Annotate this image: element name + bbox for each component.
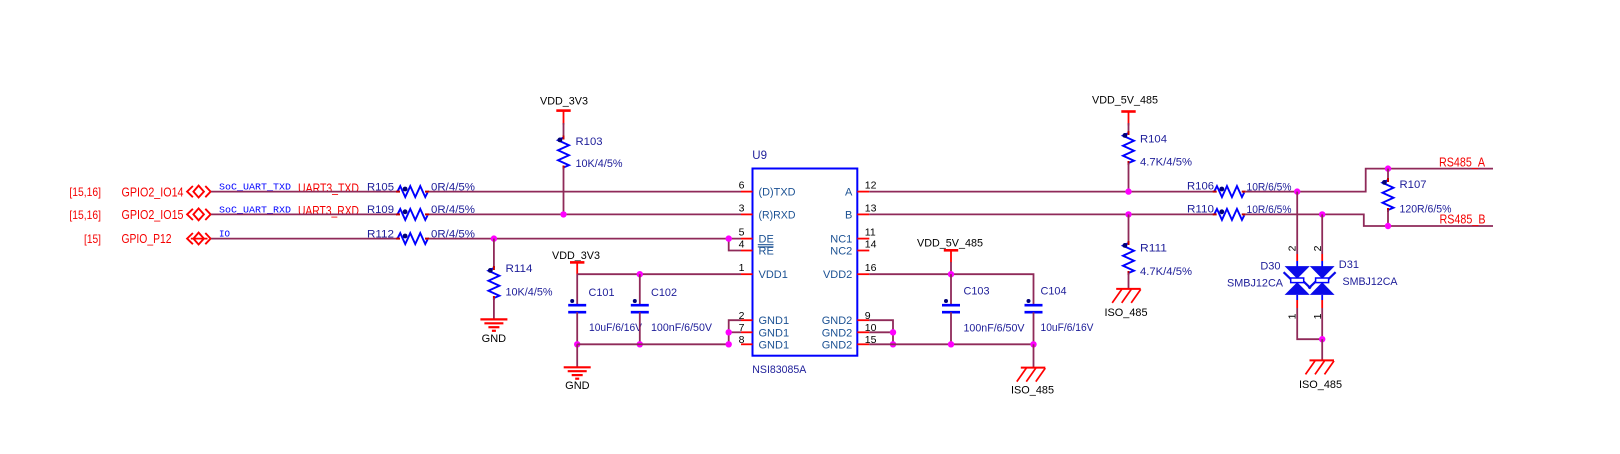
junction C104 bottom / ISO drop (1030, 341, 1036, 347)
wire D31 bottom to ISO_485 (1321, 295, 1323, 300)
wire B line to R111 (1128, 214, 1130, 243)
U9 pin 16 VDD2 (857, 273, 869, 275)
svg-text:R105: R105 (367, 181, 394, 193)
wire ISO_485 ground rail (869, 343, 1033, 345)
svg-text:R112: R112 (367, 228, 394, 240)
wire R104 to A line (1128, 163, 1130, 192)
svg-text:RS485_A: RS485_A (1439, 155, 1486, 169)
svg-text:R111: R111 (1140, 243, 1167, 255)
svg-text:10uF/6/16V: 10uF/6/16V (589, 322, 643, 334)
wire C104 bottom to ISO_485 ground (1033, 312, 1035, 344)
wire A line (U9 pin 12 to R106) (869, 191, 1214, 193)
svg-text:ISO_485: ISO_485 (1299, 379, 1342, 391)
svg-text:[15,16]: [15,16] (69, 208, 101, 222)
svg-text:A: A (845, 187, 853, 199)
svg-text:VDD1: VDD1 (759, 269, 788, 281)
wire R114 to IO row (493, 239, 495, 268)
svg-text:GND2: GND2 (822, 339, 853, 351)
ground ISO_485 (below C104) (1021, 367, 1046, 369)
wire IO row (port to R112) (211, 238, 397, 240)
svg-text:6: 6 (739, 180, 745, 192)
svg-text:12: 12 (865, 180, 877, 192)
svg-text:10uF/6/16V: 10uF/6/16V (1041, 322, 1095, 334)
svg-text:120R/6/5%: 120R/6/5% (1400, 204, 1452, 216)
svg-text:DE: DE (759, 234, 774, 246)
junction GND2 pin10 tee (890, 329, 896, 335)
wire RS485_A to R107 (1387, 169, 1389, 180)
svg-text:GPIO2_IO14: GPIO2_IO14 (122, 185, 184, 199)
svg-text:GND2: GND2 (822, 327, 853, 339)
svg-text:VDD_5V_485: VDD_5V_485 (1092, 94, 1158, 106)
wire R111 to ISO_485 ground (1128, 273, 1130, 289)
svg-text:GPIO_P12: GPIO_P12 (122, 232, 172, 246)
svg-text:B: B (845, 209, 852, 221)
svg-text:ISO_485: ISO_485 (1105, 307, 1148, 319)
svg-text:C103: C103 (964, 286, 990, 298)
svg-text:GND: GND (565, 380, 590, 392)
junction R104 on A line (1125, 188, 1131, 194)
svg-text:R114: R114 (506, 263, 533, 275)
U9 pin 15 GND2 (857, 343, 869, 345)
svg-text:C104: C104 (1041, 286, 1067, 298)
svg-text:R106: R106 (1187, 181, 1214, 193)
junction D31 tap on B line (1319, 211, 1325, 217)
svg-text:7: 7 (739, 322, 745, 334)
svg-text:NC1: NC1 (830, 234, 852, 246)
U9 pin 8 GND1 (741, 343, 753, 345)
U9 pin 10 GND2 (857, 331, 869, 333)
wire R107 to RS485_B (1387, 210, 1389, 226)
svg-text:GND1: GND1 (759, 327, 790, 339)
svg-text:8: 8 (739, 334, 745, 346)
wire IO row (R112 to DE/RE node) (428, 238, 741, 240)
wire UART3_TXD row (port to R105) (211, 191, 397, 193)
wire VDD_3V3 to R103 (563, 123, 565, 138)
U9 pin 13 B (857, 213, 869, 215)
wire C102 top drop (639, 274, 641, 305)
svg-text:VDD2: VDD2 (823, 269, 852, 281)
svg-text:ISO_485: ISO_485 (1011, 384, 1054, 396)
U9 pin 6 (D)TXD (741, 191, 753, 193)
junction GND2 pin15 tee (890, 341, 896, 347)
U9 pin 2 GND1 (741, 319, 753, 321)
svg-text:1: 1 (739, 262, 745, 274)
capacitor C102 100nF/6/50V (631, 304, 649, 307)
svg-text:100nF/6/50V: 100nF/6/50V (651, 322, 713, 334)
capacitor C101 10uF/6/16V (568, 304, 586, 307)
svg-text:11: 11 (865, 227, 876, 239)
svg-text:R107: R107 (1400, 179, 1427, 191)
svg-text:0R/4/5%: 0R/4/5% (431, 204, 475, 216)
U9 pin 5 DE (741, 238, 753, 240)
svg-text:GND1: GND1 (759, 339, 790, 351)
svg-text:5: 5 (739, 227, 745, 239)
svg-text:C102: C102 (651, 287, 677, 299)
svg-text:SMBJ12CA: SMBJ12CA (1227, 278, 1284, 290)
wire VDD_5V_485 to R104 (1128, 123, 1130, 133)
resistor R103 10K/4/5% (558, 138, 569, 168)
svg-text:0R/4/5%: 0R/4/5% (431, 228, 475, 240)
ground GND (below R114) (480, 318, 507, 320)
wire UART3_RXD row (port to R109) (211, 213, 397, 215)
junction D30/D31 bottom join (1319, 336, 1325, 342)
svg-text:D30: D30 (1260, 261, 1280, 273)
svg-text:2: 2 (739, 310, 745, 322)
junction GND1 pin7 tee (726, 329, 732, 335)
svg-text:2: 2 (1286, 245, 1298, 251)
wire R103 to UART3_RXD row (563, 168, 565, 215)
junction VDD_5V_485 on VDD2 rail (948, 271, 954, 277)
wire VDD2 rail (U9 pin 16 to C104) (869, 274, 1033, 305)
svg-text:[15]: [15] (84, 232, 101, 246)
ground ISO_485 (below R111) (1116, 288, 1141, 290)
wire VDD1 rail (VDD_3V3 to U9 pin 1) (577, 273, 741, 275)
svg-text:3: 3 (739, 202, 745, 214)
svg-text:13: 13 (865, 202, 877, 214)
svg-text:4: 4 (739, 239, 745, 251)
junction R107 bottom on RS485_B (1385, 223, 1391, 229)
wire GND rail drop to GND symbol (576, 344, 578, 367)
wire DE/RE link to U9 pin 4 (729, 239, 741, 251)
svg-text:[15,16]: [15,16] (69, 185, 101, 199)
wire A line tap down to D30 (1296, 192, 1298, 254)
op-amp U9 NSI83085A body (753, 169, 858, 356)
U9 pin 7 GND1 (741, 331, 753, 333)
wire C103 bottom (950, 312, 952, 344)
U9 pin 11 NC1 (857, 238, 869, 240)
junction R114 top on IO row (491, 235, 497, 241)
U9 pin 1 VDD1 (741, 273, 753, 275)
wire B line (R110 to RS485_B) (1246, 214, 1493, 226)
junction C102 bottom on GND rail (637, 341, 643, 347)
ground ISO_485 (below D30/D31) (1310, 359, 1335, 361)
svg-text:100nF/6/50V: 100nF/6/50V (964, 323, 1026, 335)
svg-text:14: 14 (865, 239, 877, 251)
junction R107 top on RS485_A (1385, 165, 1391, 171)
resistor R114 10K/4/5% (488, 268, 499, 298)
wire UART3_TXD row (R105 to U9 pin 6) (428, 191, 741, 193)
wire R114 to GND (493, 298, 495, 319)
wire B line (U9 pin 13 to R110) (869, 213, 1214, 215)
svg-text:(D)TXD: (D)TXD (759, 187, 796, 199)
junction D30 tap on A line (1294, 188, 1300, 194)
svg-text:D31: D31 (1339, 259, 1359, 271)
svg-text:(R)RXD: (R)RXD (759, 209, 796, 221)
wire GND1 rail (577, 343, 729, 345)
svg-text:C101: C101 (589, 287, 615, 299)
svg-text:NSI83085A: NSI83085A (752, 364, 807, 376)
svg-text:VDD_5V_485: VDD_5V_485 (917, 237, 983, 249)
svg-text:UART3_TXD: UART3_TXD (298, 181, 359, 195)
wire GND1 pins link (729, 320, 741, 344)
svg-text:U9: U9 (752, 150, 767, 162)
wire A line (R106 to RS485_A) (1246, 169, 1493, 192)
U9 pin 5 DE underline / pin 4 RE overline (758, 244, 774, 246)
U9 pin 4 RE (741, 250, 753, 252)
svg-text:GND2: GND2 (822, 315, 853, 327)
ground GND (below C101) (564, 366, 591, 368)
U9 pin 12 A (857, 191, 869, 193)
wire D30 bottom (1296, 295, 1298, 300)
wire UART3_RXD row (R109 to U9 pin 3) (428, 213, 741, 215)
svg-text:2: 2 (1312, 245, 1324, 251)
resistor R104 4.7K/4/5% (1123, 133, 1134, 163)
svg-text:R109: R109 (367, 204, 394, 216)
svg-text:GND: GND (482, 333, 507, 345)
svg-text:GPIO2_IO15: GPIO2_IO15 (122, 208, 184, 222)
wire C102 bottom to GND rail (639, 312, 641, 344)
resistor R107 120R/6/5% (1383, 180, 1394, 210)
TVS zener bar bent ends (blue) (1284, 272, 1291, 279)
svg-text:0R/4/5%: 0R/4/5% (431, 181, 475, 193)
svg-text:4.7K/4/5%: 4.7K/4/5% (1140, 266, 1192, 278)
svg-text:VDD_3V3: VDD_3V3 (540, 95, 588, 107)
svg-text:UART3_RXD: UART3_RXD (298, 204, 359, 218)
wire GND2 pins link (869, 320, 893, 344)
svg-text:SMBJ12CA: SMBJ12CA (1343, 276, 1399, 288)
capacitor C104 10uF/6/16V (1025, 304, 1043, 307)
wire C101 top drop (576, 274, 578, 305)
junction GND1 pin8 tee (726, 341, 732, 347)
U9 pin 9 GND2 (857, 319, 869, 321)
svg-text:GND1: GND1 (759, 315, 790, 327)
svg-text:10K/4/5%: 10K/4/5% (506, 287, 553, 299)
svg-text:R104: R104 (1140, 134, 1167, 146)
TVS zener bars (1291, 278, 1304, 283)
svg-text:R103: R103 (576, 136, 603, 148)
svg-text:4.7K/4/5%: 4.7K/4/5% (1140, 157, 1192, 169)
wire C101 bottom to GND rail (576, 312, 578, 344)
U9 pin 14 NC2 (857, 250, 869, 252)
junction R111 on B line (1125, 211, 1131, 217)
capacitor C103 100nF/6/50V (942, 304, 960, 307)
junction C101 bottom / GND rail (574, 341, 580, 347)
svg-text:VDD_3V3: VDD_3V3 (552, 250, 600, 262)
wire B line tap down to D31 (1321, 214, 1323, 254)
resistor R111 4.7K/4/5% (1123, 243, 1134, 273)
wire C103 top drop (950, 274, 952, 305)
svg-text:NC2: NC2 (830, 246, 852, 258)
U9 pin 3 (R)RXD (741, 213, 753, 215)
junction DE/RE split (726, 235, 732, 241)
junction R103 bottom on RXD row (560, 211, 566, 217)
svg-text:R110: R110 (1187, 203, 1214, 215)
svg-text:10K/4/5%: 10K/4/5% (576, 158, 623, 170)
junction C103 bottom on ISO rail (948, 341, 954, 347)
junction C102 top on VDD1 rail (637, 271, 643, 277)
svg-text:16: 16 (865, 262, 877, 274)
